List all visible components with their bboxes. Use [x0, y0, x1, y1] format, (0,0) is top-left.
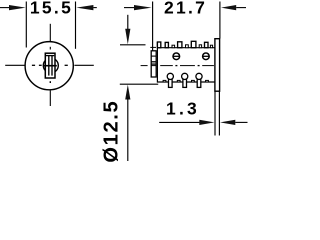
flange (right end disc)	[215, 39, 220, 91]
top bump 2	[186, 45, 189, 48]
dimension 21.7 left extension line	[152, 2, 154, 51]
dimension 21.7 dim line left tail	[124, 7, 135, 9]
svg-text:15.5: 15.5	[30, 0, 73, 18]
pin hole symbol 1	[173, 53, 180, 60]
bottom bump 2	[177, 80, 180, 82]
svg-text:21.7: 21.7	[164, 0, 207, 18]
dimension 15.5 right extension line	[75, 2, 77, 49]
dimension 15.5 dim line left arrow	[0, 7, 10, 9]
dimension 21.7 dim line right tail	[236, 7, 246, 9]
keyway interior top bar	[46, 55, 54, 57]
dimension O12.5 up arrowhead	[125, 85, 130, 100]
dimension 21.7 right arrowhead	[221, 5, 236, 10]
small stub line left of body top	[150, 46, 156, 48]
bottom pin 1	[167, 73, 173, 87]
dimension 1.3 dim line right tail	[235, 121, 247, 123]
cam slot line 2	[151, 61, 156, 63]
dimension 15.5 right arrowhead	[76, 5, 93, 10]
dimension 1.3 dim line left tail	[159, 121, 199, 123]
side view centerline	[141, 65, 214, 67]
top bump 4	[210, 45, 212, 48]
dimension 21.7 left arrowhead	[134, 5, 152, 10]
spring tab E (top)	[205, 42, 209, 47]
bottom pin 3	[196, 73, 202, 87]
key profile inner line right	[51, 55, 53, 76]
spring tab D (top)	[191, 41, 196, 47]
keyhole plug circle	[43, 58, 58, 73]
bottom pin 2	[182, 73, 188, 87]
dimension O12.5 up arrow shaft	[127, 98, 129, 162]
keyway outer slot rectangle	[45, 53, 55, 78]
key profile inner line left	[48, 55, 50, 76]
bottom bump 1	[163, 80, 166, 82]
pin hole symbol 2	[203, 53, 210, 60]
dimension 15.5 dim line right tail	[93, 7, 96, 9]
side view body outline	[157, 42, 215, 83]
side view cam (left end cap)	[151, 51, 156, 77]
dimension 21.7 right extension line	[219, 2, 221, 39]
vertical centerline of face view	[49, 24, 51, 106]
top bump 1	[172, 45, 175, 48]
dimension O12.5 top target line	[120, 44, 146, 46]
dimension O12.5 down arrow shaft	[127, 15, 129, 30]
face view outer circle (flange)	[25, 42, 73, 90]
centerline bar across keyway	[44, 65, 57, 67]
bottom bump 3	[192, 80, 195, 82]
cam slot line 3	[151, 63, 156, 65]
cam slot line 1	[151, 55, 156, 57]
dimension 15.5 left extension line	[25, 2, 27, 48]
bottom bump 4	[206, 80, 209, 82]
dimension O12.5 down arrowhead	[125, 29, 130, 45]
top bump 3	[199, 45, 201, 48]
spring tab A (top, at body left edge)	[157, 42, 160, 48]
svg-text:Ø12.5: Ø12.5	[100, 100, 122, 162]
svg-text:1.3: 1.3	[166, 98, 200, 118]
dimension O12.5 bottom target line	[120, 83, 158, 85]
dimension 1.3 right arrowhead	[220, 120, 235, 125]
horizontal centerline of face view	[5, 64, 94, 66]
dimension 1.3 left extension line	[214, 91, 216, 135]
dimension 1.3 right extension line	[218, 91, 220, 135]
spring tab C (top)	[178, 42, 182, 48]
spring tab B (top)	[165, 42, 168, 47]
dimension 15.5 left arrowhead	[9, 5, 26, 10]
dimension 1.3 left arrowhead	[199, 120, 214, 125]
